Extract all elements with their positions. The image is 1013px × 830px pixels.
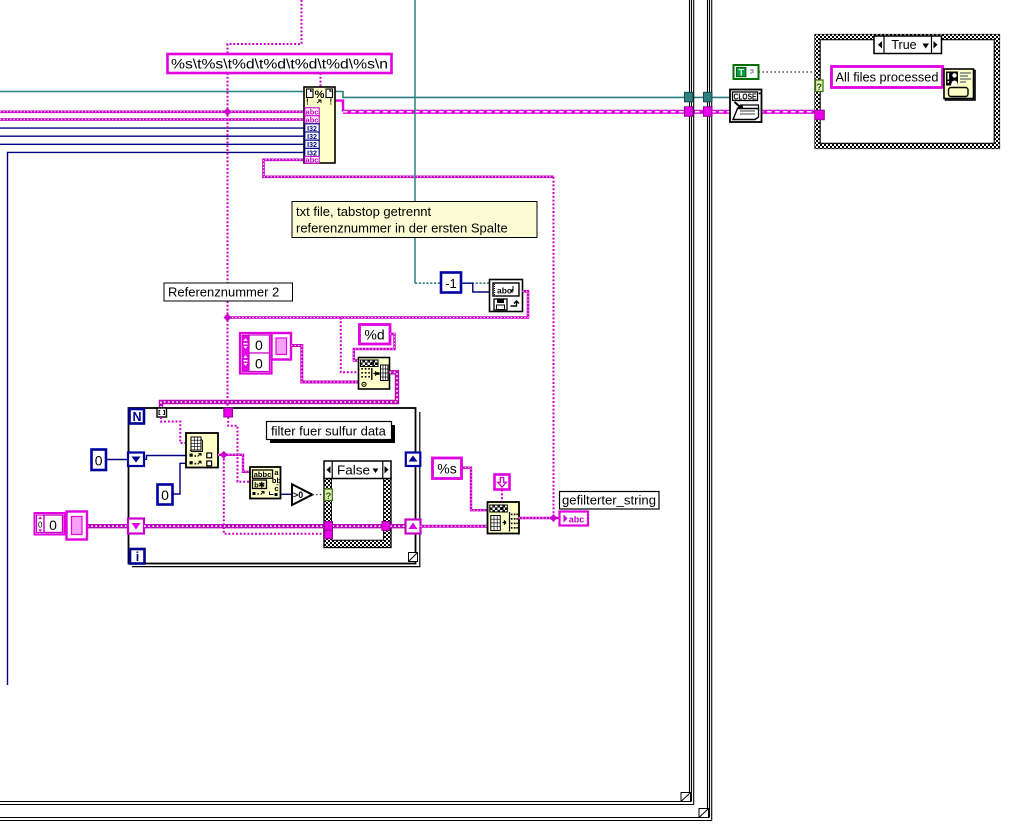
empty array element constant xyxy=(272,333,292,360)
tunnel: case True selector ? xyxy=(816,80,824,93)
wire: boolean dotted to case ? terminal xyxy=(759,71,817,73)
wire: initial-string input routed from gefilterter_string trunk xyxy=(264,160,554,177)
svg-text:referenznummer in der ersten S: referenznummer in der ersten Spalte xyxy=(296,221,508,236)
wire: vertical trunk x=553.5 xyxy=(553,177,555,518)
tunnel: case True magenta input xyxy=(815,110,825,120)
constant: -1 xyxy=(441,273,461,293)
node: Match Pattern xyxy=(250,467,281,499)
tunnel: case left magenta 2 xyxy=(325,530,333,539)
svg-text:-1: -1 xyxy=(445,276,457,291)
constant: 0 inside loop xyxy=(158,485,173,505)
wire: navy tunnel to index array xyxy=(144,456,186,460)
constant: empty array element bottom-left xyxy=(67,512,88,540)
svg-text:b✱: b✱ xyxy=(254,480,266,489)
tunnel: magenta array input left xyxy=(128,519,144,534)
constant: line feed (down arrow) xyxy=(495,475,510,490)
outermost structure resize corner xyxy=(699,809,709,818)
wire: I32 input 2 xyxy=(0,135,304,137)
wire: format string constant drop from top xyxy=(228,0,302,54)
wire: output string thick dashed to CLOSE and case tunnel xyxy=(335,101,343,112)
wire: from top magenta tunnel down to match regex input xyxy=(228,417,250,482)
svg-text:filter fuer sulfur data: filter fuer sulfur data xyxy=(271,424,387,439)
svg-text:%s: %s xyxy=(437,461,456,477)
svg-text:True: True xyxy=(891,38,916,52)
for loop resize corner xyxy=(409,553,418,562)
svg-text:gefilterter_string: gefilterter_string xyxy=(562,493,656,508)
terminal: N loop count xyxy=(130,409,145,424)
svg-text:abc: abc xyxy=(306,116,319,125)
string constant: %d xyxy=(360,325,391,345)
node: Close File xyxy=(730,90,762,123)
node: Read Characters From File xyxy=(490,280,523,312)
wire: -1 count to read node xyxy=(461,283,490,292)
label: filter fuer sulfur data with shadow xyxy=(267,422,396,444)
svg-text:abbc: abbc xyxy=(254,470,272,479)
wire: string array rope through loop and case xyxy=(87,524,128,528)
svg-text:abc: abc xyxy=(569,515,585,525)
structure: inner case False xyxy=(324,479,391,548)
string constant: All files processed xyxy=(832,67,943,88)
tunnel: case left magenta 1 xyxy=(325,522,333,531)
node: One Button Dialog xyxy=(944,69,975,100)
wire: string vertical trunk x=227.5 xyxy=(227,73,229,408)
svg-text:N: N xyxy=(132,410,141,424)
indicator terminal: abc string xyxy=(560,512,589,526)
wire: format-string into node top xyxy=(320,73,322,87)
svg-text:abc: abc xyxy=(306,155,319,164)
svg-text:CLOSE: CLOSE xyxy=(734,92,758,101)
tunnel: case right magenta xyxy=(382,522,390,531)
wire: read output string down-left to trunk junction xyxy=(228,291,529,317)
svg-text:0: 0 xyxy=(49,517,57,533)
wire: I32 input 3 xyxy=(0,143,304,145)
wire: cluster array to node lower input xyxy=(291,346,359,383)
wire: string wavy input 2 xyxy=(0,118,304,121)
svg-text:!: ! xyxy=(306,98,309,107)
svg-text:%d: %d xyxy=(364,327,384,343)
svg-text:?: ? xyxy=(325,491,331,502)
svg-text:%: % xyxy=(315,89,325,101)
wire: 0 to left navy tunnel xyxy=(106,459,128,461)
wire: concat output to indicator with junction to trunk xyxy=(519,517,560,519)
svg-text:txt file, tabstop getrennt: txt file, tabstop getrennt xyxy=(296,204,432,219)
svg-text:T: T xyxy=(739,67,745,77)
tunnel: teal on border A xyxy=(685,92,694,102)
node U1 Format Into String (expanded) xyxy=(304,87,335,164)
tunnel: navy output right xyxy=(406,453,421,467)
svg-text:?: ? xyxy=(816,82,822,93)
tunnel: case selector ? xyxy=(325,489,333,502)
svg-text:0: 0 xyxy=(38,521,43,530)
case True selector label xyxy=(874,36,942,54)
node: Array To Spreadsheet String xyxy=(488,502,520,534)
label: Referenznummer 2 xyxy=(164,283,293,301)
svg-text:0: 0 xyxy=(95,453,103,469)
wire: rope from loop right tunnel to concat node xyxy=(421,525,489,528)
wire: string wavy input 1 xyxy=(0,111,304,114)
wire: teal refnum from format node to CLOSE xyxy=(335,92,730,98)
wire: %d to format input of node xyxy=(354,334,395,361)
tunnel: magenta on border B xyxy=(704,107,713,117)
structure: outer while loop right border (triple line) xyxy=(0,0,694,805)
wire: %s constant to concat node xyxy=(462,468,489,511)
svg-text:abc: abc xyxy=(497,286,512,296)
wire: line feed to concat node xyxy=(501,490,503,503)
svg-text:i: i xyxy=(136,550,139,564)
constant: 0 outside loop xyxy=(92,450,107,471)
outer while loop resize corner xyxy=(681,793,691,802)
node: Spreadsheet String To Array xyxy=(359,358,390,390)
tunnel: magenta on border A xyxy=(685,107,694,117)
svg-text:!: ! xyxy=(330,98,333,107)
wire: 0 to index array second input xyxy=(173,463,187,494)
wire: I32 input 1 xyxy=(0,127,304,129)
structure: case True xyxy=(815,35,1000,149)
tunnel: magenta string input on top xyxy=(224,408,233,417)
structure: outermost structure right border (triple line) xyxy=(0,0,712,821)
terminal: i iteration xyxy=(130,549,145,564)
structure: for loop border xyxy=(129,408,420,567)
svg-text:Referenznummer 2: Referenznummer 2 xyxy=(168,285,279,300)
junction on trunk at read output xyxy=(224,314,232,322)
tunnel: teal on border B xyxy=(704,92,713,102)
wire: branch down to spreadsheet-string-to-array xyxy=(341,318,359,373)
wire: branch down to case lower tunnel xyxy=(224,455,325,534)
tunnel: [] 2D array disabled-index input xyxy=(157,408,167,417)
wire: dotted from [] tunnel to index array xyxy=(161,417,186,443)
svg-text:False: False xyxy=(337,464,370,478)
svg-text:All files processed: All files processed xyxy=(836,70,939,85)
string constant: format string label xyxy=(168,54,392,73)
comment label: txt file tabstop getrennt xyxy=(292,202,537,238)
svg-text:0: 0 xyxy=(255,356,263,372)
wire: 2D array rope from node to loop [] tunnel xyxy=(161,372,397,408)
node: Index Array xyxy=(186,433,218,468)
constant: array of 0 bottom-left xyxy=(35,513,65,535)
svg-text:0: 0 xyxy=(255,337,263,353)
label: gefilterter_string xyxy=(560,492,660,510)
string constant: %s xyxy=(433,458,462,479)
wire: I32 input 4 from bottom left xyxy=(8,152,305,685)
wire: teal refnum horizontal into format node xyxy=(0,91,304,93)
svg-text:0: 0 xyxy=(161,487,169,503)
wire: teal vertical to read node xyxy=(414,0,416,283)
wire: index array output with junction xyxy=(218,455,250,472)
cluster constant with two 0 values xyxy=(240,333,272,374)
wire: match offset to greater-than-0 xyxy=(281,493,292,495)
tunnel: navy index input left xyxy=(128,453,144,467)
inner case selector label False xyxy=(324,461,391,479)
tunnel: magenta array output right xyxy=(406,520,421,534)
constant: boolean True xyxy=(734,65,759,79)
svg-text:%s\t%s\t%d\t%d\t%d\t%d\%s\n: %s\t%s\t%d\t%d\t%d\t%d\%s\n xyxy=(171,57,388,72)
node: greater than 0 comparison xyxy=(292,484,312,505)
junction on string input 1 xyxy=(224,108,232,116)
svg-text:>0: >0 xyxy=(293,490,303,500)
wire: boolean dotted to case selector xyxy=(312,494,324,496)
